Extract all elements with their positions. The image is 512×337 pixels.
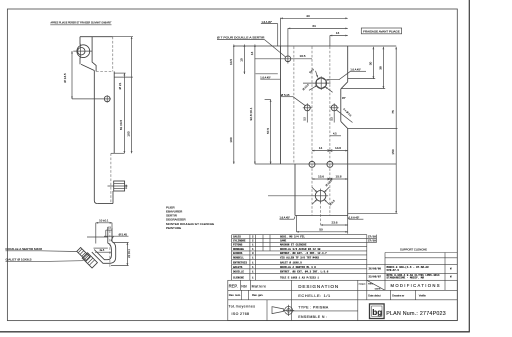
small hole in bar [104,96,110,102]
svg-text:1.6 A 45°: 1.6 A 45° [262,20,272,24]
svg-text:92.8 ±0.1: 92.8 ±0.1 [249,107,253,120]
head to bar diagonal [81,64,94,70]
svg-text:Tol.moyennes: Tol.moyennes [229,305,256,309]
extra ext line [268,195,313,197]
notch flat [340,89,342,122]
svg-text:APRES PLIAGE PERER ET FRAISER: APRES PLIAGE PERER ET FRAISER SUIVANT GA… [51,21,112,25]
bend line dashed 2 [311,47,313,216]
leader down from chamfer note [277,24,279,46]
svg-text:PLAN Num.: 2774P023: PLAN Num.: 2774P023 [386,311,446,317]
dim left of head [71,51,73,99]
galet box [114,181,125,191]
svg-text:1.6 A 45°: 1.6 A 45° [350,67,360,71]
modifications box lines [385,252,457,254]
svg-text:CALES: CALES [233,236,241,239]
svg-text:ECHELLE: 1/1: ECHELLE: 1/1 [298,293,330,298]
svg-text:57Ø→57.5: 57Ø→57.5 [387,268,400,272]
svg-text:Verifie: Verifie [419,295,427,298]
svg-text:Ø 5.45: Ø 5.45 [119,232,128,236]
boss circle outer [77,45,90,58]
head bend line [92,37,96,72]
svg-text:23/06/97: 23/06/97 [369,274,382,278]
dim 15 [243,45,245,75]
douille hatched block [77,247,90,260]
svg-text:DOUILLE A SERTIR M4X8: DOUILLE A SERTIR M4X8 [6,247,43,251]
svg-text:MACHON ET CLENCHE: MACHON ET CLENCHE [280,244,307,247]
head left edge upper [79,37,81,45]
svg-text:Ø 13.5: Ø 13.5 [63,73,67,83]
svg-text:50: 50 [319,227,323,231]
svg-text:Ø 21: Ø 21 [118,82,122,89]
hidden edge below step [110,153,112,203]
svg-text:ENTRETOIS: ENTRETOIS [233,262,247,265]
svg-text:CAME: CAME [280,240,287,243]
svg-text:13: 13 [336,31,340,35]
svg-text:GALETS: GALETS [233,266,243,269]
svg-text:40: 40 [306,14,310,18]
svg-text:100: 100 [229,137,233,142]
40 ext / part edge extension [280,18,282,46]
svg-text:10.5: 10.5 [229,59,233,65]
svg-text:23.6: 23.6 [331,221,337,225]
projection symbol [272,305,294,316]
dim 61 [123,73,125,153]
dim 75 / 150 right [395,47,397,213]
svg-text:1.6 A 45°: 1.6 A 45° [260,75,270,79]
part right edge lower [347,129,349,216]
svg-text:REP.: REP. [229,284,238,289]
strip outer wall [92,228,116,263]
svg-text:TOLE E 10X8 1 A3 P/2223 1: TOLE E 10X8 1 A3 P/2223 1 [280,275,319,279]
dim 13 top right [330,35,348,37]
svg-text:CYLINDRE: CYLINDRE [233,240,246,243]
dim 100 [131,37,133,154]
svg-text:RONDELL: RONDELL [233,257,244,260]
svg-text:STANDARDISME - MODIF. MØ: STANDARDISME - MODIF. MØ [387,276,425,280]
svg-text:Dessine er: Dessine er [392,295,404,298]
svg-text:FRAISAGE AVANT PLIAGE: FRAISAGE AVANT PLIAGE [363,29,400,33]
svg-text:75: 75 [391,110,395,114]
notch diagonal lower [341,121,348,128]
svg-text:CLENCHE: CLENCHE [233,276,244,279]
head dashed right edge [112,37,114,72]
galet hatched block [82,253,97,268]
dim 10 +-0.1 [96,222,112,224]
interior dim lines [94,247,108,249]
svg-text:4a.5: 4a.5 [100,249,105,252]
svg-text:REV.: REV. [368,284,373,286]
svg-text:ENSEMBLE N :: ENSEMBLE N : [298,315,327,319]
svg-text:DOUILLE: DOUILLE [233,271,244,274]
svg-text:DATE: DATE [375,288,381,291]
svg-text:13: 13 [250,52,254,56]
dim 38 right [382,47,384,89]
fraisage avant pliage box [361,28,401,34]
dim baseline [255,163,396,165]
edge below galet [112,191,114,204]
part bottom edge [295,215,348,217]
bar left edge [94,71,97,204]
dim 50 [296,231,347,233]
note: apres pliage percer et fraiser suivant gabarit [50,21,111,25]
svg-text:1.6 A 45°: 1.6 A 45° [280,215,290,219]
dim 14 / 14.6 [312,150,348,152]
svg-text:16.5: 16.5 [299,54,305,58]
dim 4.5 [106,229,112,231]
svg-text:Ø 7 POUR DOUILLE A SERTIR: Ø 7 POUR DOUILLE A SERTIR [217,36,265,40]
dim 15.6 / 15.8 [312,178,348,180]
svg-text:PITONS: PITONS [233,244,243,247]
part left edge [280,46,282,164]
bar right edge [113,71,115,153]
hole diam7 [285,56,291,62]
small horizontal line left [256,73,278,75]
dim 13 / 92.8 [254,45,256,165]
dim 4.5 small [330,135,341,137]
dim 34 [288,27,348,29]
label 4 x diam 4.5 [336,110,352,123]
svg-text:GALET Ø 10X6.5: GALET Ø 10X6.5 [6,258,33,262]
bar bottom edge [97,203,113,205]
hole 5.45 [304,105,310,111]
dim column 10.5 / 100 [233,45,235,165]
5.5 mini dims [306,112,308,122]
head top edge [80,36,113,38]
svg-text:Ø 5.45: Ø 5.45 [281,93,290,97]
svg-text:150: 150 [391,149,395,154]
part top edge with extensions [234,45,396,47]
svg-text:DOUILLE 3/6 ACIER Ø4 12 30: DOUILLE 3/6 ACIER Ø4 12 30 [280,247,321,251]
svg-text:RONDAGE: RONDAGE [233,248,244,251]
svg-text:Rev. num.: Rev. num. [229,293,241,297]
step at 153 [111,152,124,154]
svg-text:15.6: 15.6 [318,175,324,179]
svg-text:ENTRET. Ø8 EXT. .6 INT. 12.4.7: ENTRET. Ø8 EXT. .6 INT. 12.4.7 [280,251,327,255]
bend line dashed 1 [293,47,295,165]
sheet outer bottom edge [0,331,470,333]
svg-text:1.6 A 45°: 1.6 A 45° [349,215,359,219]
svg-text:15.8: 15.8 [335,175,341,179]
centerline [109,231,111,269]
svg-text:Date debut: Date debut [368,295,381,298]
svg-text:57.5: 57.5 [266,128,270,134]
svg-text:MODIFICATIONS: MODIFICATIONS [391,283,440,288]
svg-text:ISO 2768: ISO 2768 [232,312,250,316]
svg-text:14.6: 14.6 [335,146,341,150]
svg-text:DEGRAISSER: DEGRAISSER [166,218,187,222]
dim 22 +-0.1 [126,243,128,266]
svg-text:ECROUS: ECROUS [233,252,243,255]
part lower-left edge [294,164,296,216]
sheet outer right edge [468,0,470,332]
svg-text:PEINTURE: PEINTURE [166,226,181,230]
top-left shelf [87,236,108,238]
svg-text:GOUJ. M5 3/4 FIL: GOUJ. M5 3/4 FIL [280,235,305,239]
svg-text:TYPE : PRISMA: TYPE : PRISMA [298,306,329,310]
strip inner wall [94,228,111,260]
svg-text:27/10: 27/10 [368,235,376,239]
svg-text:34: 34 [312,24,316,28]
svg-text:SUPPORT CLENCHE: SUPPORT CLENCHE [400,247,427,251]
svg-text:DOUILLE A SERTIR ML 4 8: DOUILLE A SERTIR ML 4 8 [280,266,316,269]
dim 40 [281,17,348,19]
svg-text:100: 100 [127,131,131,136]
BOM texts [233,235,452,280]
svg-text:DESIGNATION: DESIGNATION [298,284,338,289]
svg-text:marque: marque [359,284,367,286]
svg-text:ENTRET. Ø8 EXT. Ø4.3 INT. L:5.: ENTRET. Ø8 EXT. Ø4.3 INT. L:5.6 [280,270,329,274]
line through hole and 16.5 dim [255,58,312,60]
bg logo [370,304,385,319]
svg-text:30: 30 [368,62,372,66]
dashed step [96,70,113,72]
svg-text:4.5: 4.5 [333,131,337,135]
svg-text:Rev. gen.: Rev. gen. [252,293,264,297]
head left edge lower [79,57,81,64]
svg-text:38: 38 [378,66,382,70]
ext down through hole7 [287,28,289,63]
svg-text:45°: 45° [342,97,346,100]
holes pair on bend lines [309,161,315,167]
svg-text:15: 15 [240,58,244,62]
notch diagonal upper [341,82,348,89]
svg-text:bg: bg [372,308,382,317]
dim 30 right [372,47,374,79]
hex hole [316,78,327,89]
svg-text:61 ±0.5: 61 ±0.5 [119,120,123,131]
svg-text:10 ±0.1: 10 ±0.1 [99,218,109,222]
svg-text:22 ±0.1: 22 ±0.1 [127,249,131,258]
boss hole circle [78,48,85,55]
bend line dashed 3 [329,47,331,216]
boss crosshair [73,50,92,52]
dim 57.5 [270,100,272,165]
svg-text:Matiere: Matiere [252,285,267,289]
svg-text:26/06/00: 26/06/00 [369,267,382,271]
dim 23.6 [321,224,348,226]
svg-text:VIS ALLEN TF 3/6 TRT M4X8: VIS ALLEN TF 3/6 TRT M4X8 [280,256,319,260]
svg-text:GALET Ø 10X6.5: GALET Ø 10X6.5 [280,261,302,265]
svg-text:Nbr: Nbr [241,285,247,289]
svg-text:27/10: 27/10 [368,239,376,243]
hole 4.5 [331,105,337,111]
svg-text:14: 14 [319,146,323,150]
part right edge upper [347,46,349,82]
lower cross hole [315,191,326,202]
